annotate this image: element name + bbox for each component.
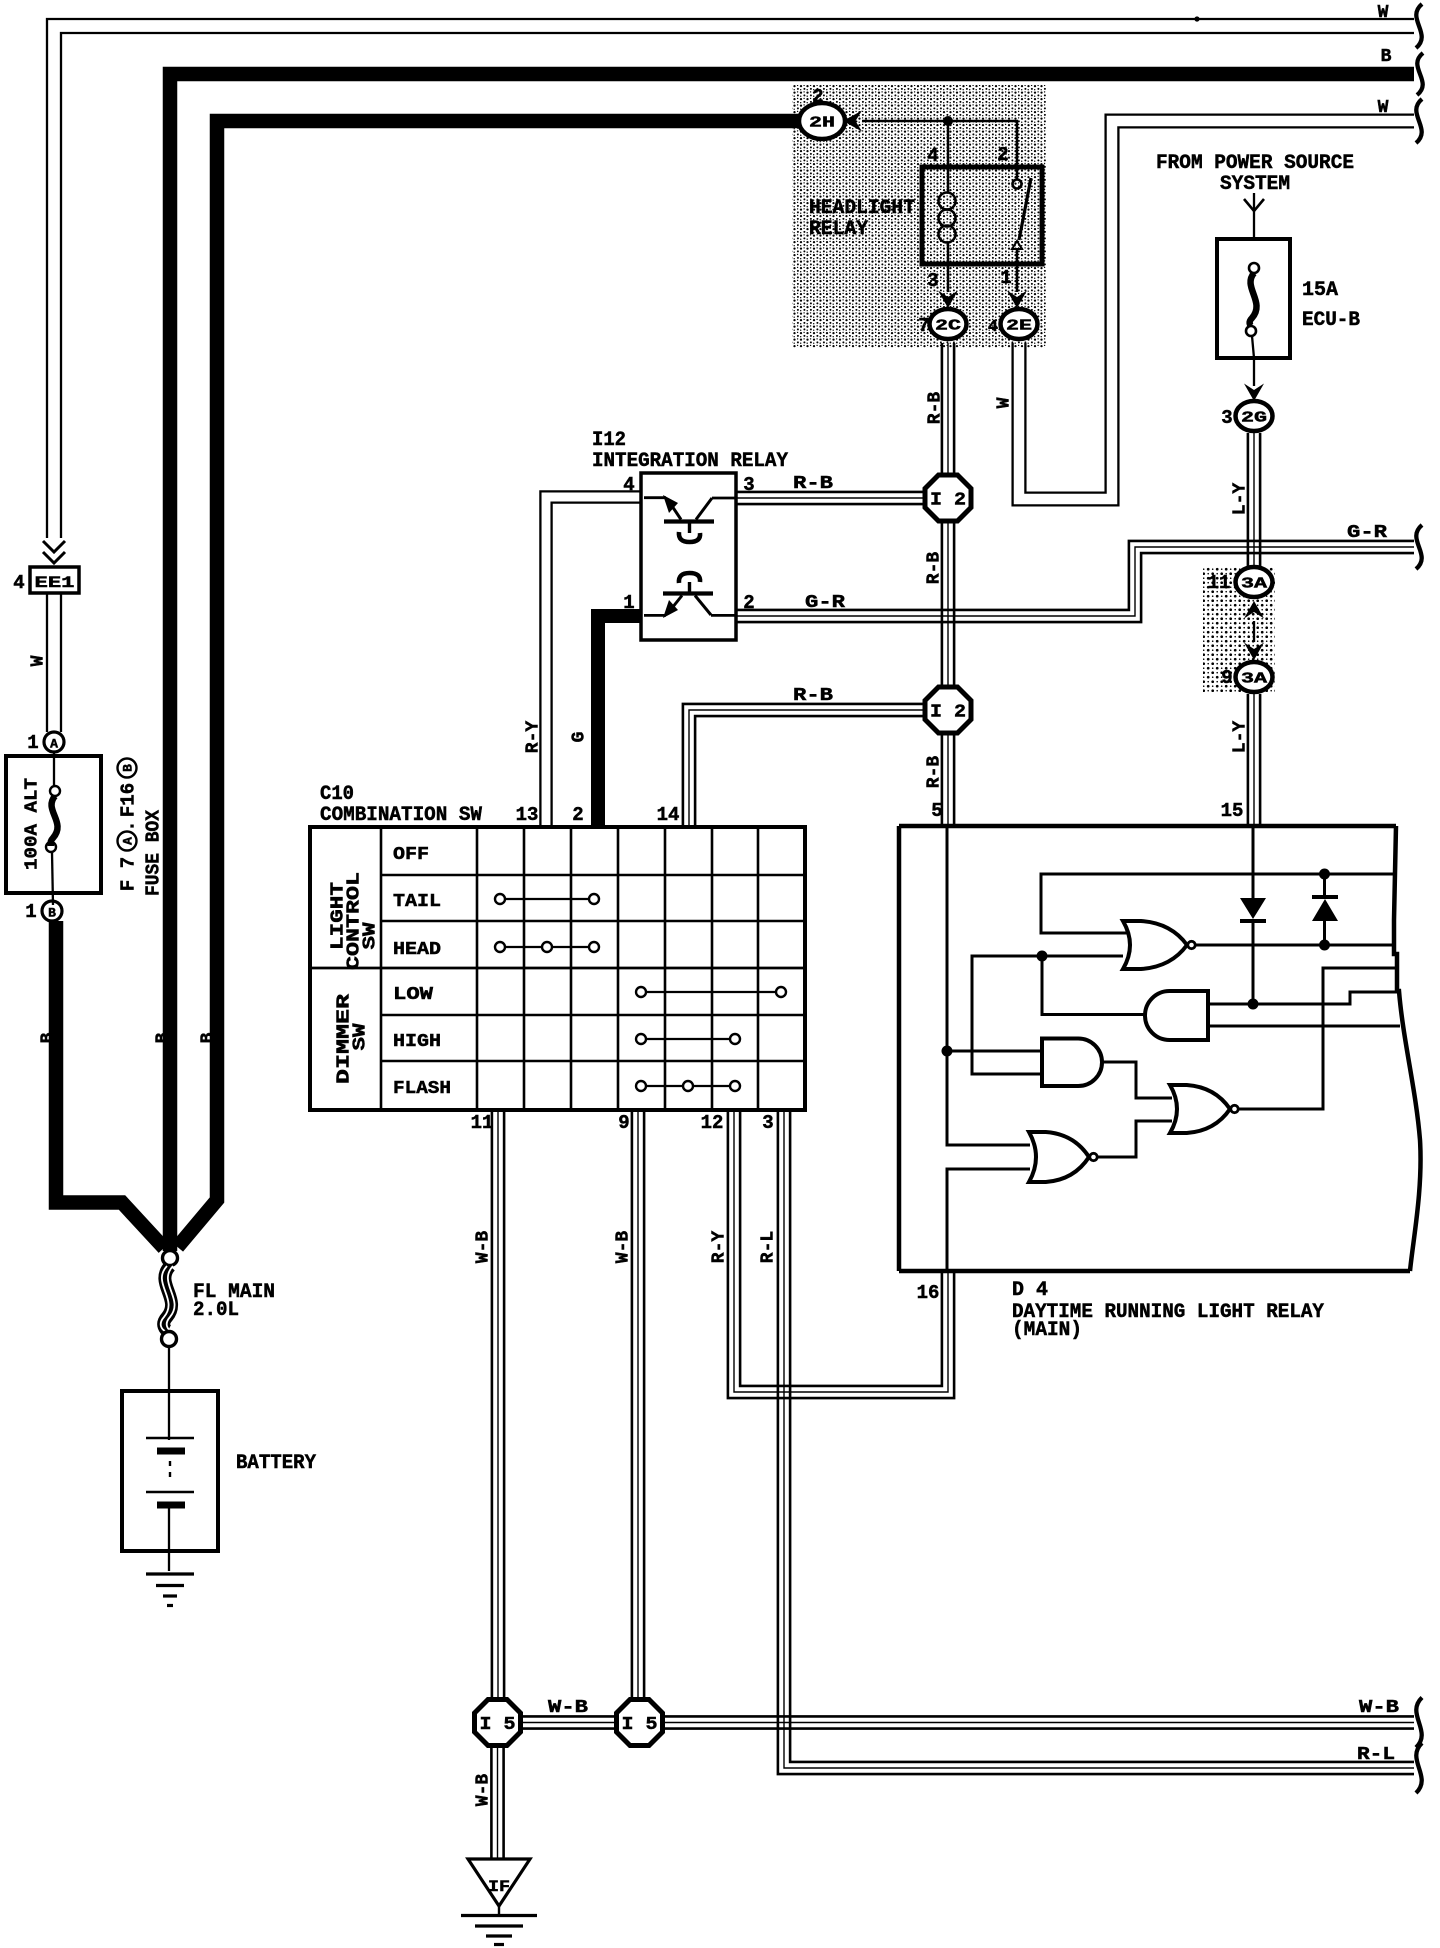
ground IF triangle [468, 1859, 530, 1906]
wave break W top right [1416, 4, 1422, 48]
svg-text:F 7: F 7 [118, 857, 140, 891]
AND1 input B wire [1208, 1025, 1400, 1028]
integration relay box I12 [641, 473, 736, 640]
label FL MAIN 2.0L [193, 1281, 275, 1322]
svg-text:G-R: G-R [1347, 523, 1387, 543]
svg-text:B: B [1381, 47, 1392, 67]
svg-text:1: 1 [1000, 267, 1011, 289]
svg-text:R-B: R-B [925, 392, 945, 425]
svg-text:1: 1 [623, 592, 634, 614]
NOR1 lower input wire [972, 956, 1123, 1074]
label 15A ECU-B [1302, 279, 1360, 332]
svg-text:I 5: I 5 [622, 1715, 658, 1735]
svg-text:R-Y: R-Y [709, 1231, 729, 1264]
svg-text:2G: 2G [1241, 410, 1267, 427]
junction circle at FL MAIN top [163, 1251, 178, 1266]
svg-text:2H: 2H [809, 115, 835, 132]
svg-text:B: B [153, 1032, 173, 1043]
I12 pin 2 label [743, 592, 754, 614]
terminal B circle [42, 901, 62, 921]
svg-text:9: 9 [1221, 667, 1232, 689]
label 5 at D4 pin 5 [931, 800, 942, 822]
label 2 above connector 2H [812, 86, 823, 108]
AND gate U3 [1042, 1039, 1102, 1087]
svg-text:B: B [38, 1032, 58, 1043]
svg-text:OFF: OFF [393, 845, 429, 865]
svg-text:4: 4 [927, 145, 938, 167]
wire from headlight relay to 2H [862, 121, 1017, 167]
NOR2 output wire [1237, 968, 1397, 1109]
svg-text:I 2: I 2 [930, 703, 966, 723]
relay pin 1 label [1000, 267, 1011, 289]
wire W-B from I5 to right edge [665, 1698, 1415, 1729]
relay switch contact [1012, 167, 1031, 264]
label 2 at C10 pin 2 [572, 804, 583, 826]
label 11 at connector 3A [1208, 572, 1231, 594]
label 4 at EE1 [13, 572, 24, 594]
svg-text:W: W [1378, 3, 1389, 23]
wire R-B from 2C to junction I2 [925, 343, 954, 474]
svg-text:B: B [48, 906, 56, 921]
svg-text:4: 4 [13, 572, 24, 594]
NOR gate U1 output wire [1195, 944, 1394, 947]
svg-text:HEADLIGHT: HEADLIGHT [809, 197, 915, 220]
AND1 output wire [1042, 956, 1146, 1015]
svg-text:15A: 15A [1302, 279, 1338, 302]
junction I 2 (first) [925, 475, 971, 521]
combination switch table C10 [310, 827, 805, 1110]
label C10 [320, 783, 354, 806]
fusible link FL MAIN 2.0L [161, 1266, 175, 1331]
junction dot pin5/AND2 [942, 1046, 953, 1057]
label I12 [592, 429, 626, 452]
svg-text:W: W [1378, 98, 1389, 118]
terminal A circle [44, 732, 64, 752]
wire B from ALT to battery junction [38, 921, 164, 1248]
svg-text:12: 12 [701, 1112, 724, 1134]
label F7A F16B fuse box [118, 759, 140, 892]
svg-text:SW: SW [360, 922, 380, 949]
label HEAD [393, 940, 441, 960]
svg-text:R-B: R-B [924, 552, 944, 585]
label W on 2E wire [994, 397, 1014, 408]
label FUSE BOX [143, 809, 165, 896]
svg-text:INTEGRATION RELAY: INTEGRATION RELAY [592, 450, 788, 473]
wire R-Y from I12 pin 4 to C10 pin 13 [523, 491, 641, 826]
svg-text:BATTERY: BATTERY [236, 1452, 316, 1475]
wire R-B between I2 junctions [924, 523, 954, 686]
svg-text:14: 14 [657, 804, 680, 826]
diode D1 (anode down) [1240, 898, 1266, 1004]
arrow down to 3A(9) [1244, 643, 1264, 661]
transistor Q2 in I12 [644, 573, 736, 618]
HIGH contacts [636, 1034, 740, 1044]
svg-text:HIGH: HIGH [393, 1032, 441, 1052]
NOR gate U4 (middle) [1170, 1085, 1238, 1133]
battery cells [146, 1438, 194, 1571]
label 7 at connector 2C [918, 315, 929, 337]
connector 2E [1001, 309, 1038, 339]
label 1 at terminal A [27, 732, 38, 754]
svg-text:B: B [198, 1032, 218, 1043]
wire W (battery to right edge, double line) [47, 3, 1414, 538]
label 3 at connector 2G [1221, 407, 1232, 429]
wave break W-B right [1416, 1698, 1422, 1748]
svg-text:W-B: W-B [548, 1698, 588, 1718]
label 1 at terminal B [25, 901, 36, 923]
svg-text:W-B: W-B [1359, 1698, 1399, 1718]
svg-text:2: 2 [997, 144, 1008, 166]
connector 3A (pin 11) [1236, 567, 1273, 597]
relay pin 4 label [927, 145, 938, 167]
wire to battery [168, 1347, 170, 1440]
junction dot diode2/NOR1 output [1319, 940, 1330, 951]
svg-text:3A: 3A [1241, 576, 1267, 593]
fuse 100A ALT element [46, 752, 60, 905]
chevron arrows above EE1 [43, 541, 65, 563]
NOR gate U1 (top) [1123, 921, 1195, 969]
svg-text:11: 11 [471, 1112, 494, 1134]
junction circle at FL MAIN bottom [162, 1332, 177, 1347]
wire W-B from C10 pin 9 to I5 [613, 1110, 644, 1697]
label DIMMER SW [334, 994, 370, 1084]
svg-text:R-B: R-B [793, 686, 833, 706]
relay pin 2 label [997, 144, 1008, 166]
svg-text:2: 2 [572, 804, 583, 826]
connector EE1 box [30, 567, 79, 593]
svg-text:FROM POWER SOURCE: FROM POWER SOURCE [1156, 152, 1354, 175]
svg-text:R-B: R-B [793, 474, 833, 494]
label FROM POWER SOURCE SYSTEM [1156, 152, 1354, 196]
svg-text:W-B: W-B [473, 1231, 493, 1264]
label 14 at C10 pin 14 [657, 804, 680, 826]
svg-text:G: G [569, 732, 589, 743]
relay pin1 lead and arrow [1007, 264, 1027, 308]
svg-text:IF: IF [488, 1878, 510, 1896]
label 15 at D4 pin 15 [1221, 800, 1244, 822]
connector 3A (pin 9) [1236, 662, 1273, 692]
svg-text:2: 2 [743, 592, 754, 614]
wave break B top right [1417, 53, 1423, 95]
svg-text:ECU-B: ECU-B [1302, 309, 1360, 332]
NOR gate U5 (bottom) [1029, 1132, 1097, 1182]
connector 2G [1236, 401, 1273, 431]
svg-text:SYSTEM: SYSTEM [1220, 173, 1290, 196]
label 9 at C10 pin 9 [618, 1112, 629, 1134]
svg-text:100A ALT: 100A ALT [22, 778, 42, 870]
wire W from connector 2E to right edge [1013, 98, 1414, 505]
wire from fuse to 2G [1244, 358, 1264, 401]
junction dot diode1/AND1 input [1248, 999, 1259, 1010]
arrow up to 3A [1244, 601, 1264, 642]
junction I 2 (second) [925, 687, 971, 733]
svg-text:9: 9 [618, 1112, 629, 1134]
battery ground [146, 1574, 194, 1606]
relay pin 3 label [927, 270, 938, 292]
svg-text:11: 11 [1208, 572, 1231, 594]
wire L-Y from 2G to 3A [1230, 433, 1260, 566]
wave break W right (y121) [1416, 99, 1422, 143]
label 3 at C10 pin 3 [762, 1112, 773, 1134]
daytime running light relay box D4 [899, 826, 1421, 1271]
diode D2 (anode up) [1312, 874, 1338, 945]
svg-text:3A: 3A [1241, 671, 1267, 688]
wire L-Y from 3A to D4 pin 15 [1230, 694, 1260, 825]
wave break R-L right [1416, 1743, 1422, 1793]
I12 pin 3 label [743, 474, 754, 496]
label 11 at C10 pin 11 [471, 1112, 494, 1134]
AND1 input A wire [1208, 992, 1398, 1004]
label BATTERY [236, 1452, 316, 1475]
svg-text:16: 16 [917, 1282, 940, 1304]
LOW contacts [636, 987, 786, 997]
svg-text:R-L: R-L [1357, 1745, 1395, 1765]
svg-text:R-Y: R-Y [523, 721, 543, 754]
svg-text:C10: C10 [320, 783, 354, 806]
svg-text:4: 4 [988, 318, 998, 337]
svg-text:2E: 2E [1006, 318, 1032, 335]
wave break G-R right [1416, 525, 1422, 569]
svg-text:COMBINATION SW: COMBINATION SW [320, 804, 482, 827]
I12 pin 1 label [623, 592, 634, 614]
svg-text:W: W [28, 655, 48, 666]
label B on right battery feed [198, 1032, 218, 1043]
svg-text:I12: I12 [592, 429, 626, 452]
label HEADLIGHT RELAY [809, 197, 915, 241]
wire R-B from I2 to D4 pin 5 [924, 735, 954, 825]
svg-text:1: 1 [27, 732, 38, 754]
NOR3 output wire [1095, 1121, 1172, 1157]
svg-text:RELAY: RELAY [809, 218, 868, 241]
svg-text:A: A [121, 837, 136, 845]
connector 2C [930, 309, 967, 339]
svg-text:D 4: D 4 [1012, 1279, 1048, 1302]
junction dot at relay feed [943, 116, 953, 126]
svg-text:CONTROL: CONTROL [344, 872, 364, 970]
headlight relay box [922, 167, 1042, 264]
svg-text:W-B: W-B [613, 1231, 633, 1264]
label OFF [393, 845, 429, 865]
label 12 at C10 pin 12 [701, 1112, 724, 1134]
wire R-L from C10 pin 3 to right edge [758, 1110, 1414, 1774]
label (MAIN) [1012, 1319, 1082, 1342]
label COMBINATION SW [320, 804, 482, 827]
ground symbol below IF [461, 1906, 537, 1945]
fuse 15A ECU-B box [1217, 239, 1290, 358]
svg-text:3: 3 [743, 474, 754, 496]
svg-text:1: 1 [25, 901, 36, 923]
AND gate U2 (mirrored) [1145, 991, 1208, 1040]
svg-text:3: 3 [1221, 407, 1232, 429]
label B on middle battery feed [153, 1032, 173, 1043]
arrow into 2H [843, 111, 862, 132]
transistor Q1 in I12 [644, 495, 736, 542]
D4 NOR3 bottom input and pin16 wire [947, 1169, 1030, 1271]
svg-text:2C: 2C [935, 318, 961, 335]
svg-text:.: . [118, 820, 140, 831]
wire W-B from C10 pin 11 to I5 [473, 1110, 504, 1697]
label 100A ALT [22, 778, 42, 870]
fuse 15A ECU-B element [1246, 263, 1259, 358]
wire B (thick) from right edge down to battery junction [170, 47, 1414, 1251]
svg-text:A: A [50, 737, 58, 752]
svg-text:TAIL: TAIL [393, 892, 441, 912]
connector 3A shaded area [1203, 566, 1275, 692]
arrow from power source [1244, 193, 1264, 239]
label TAIL [393, 892, 441, 912]
TAIL contacts [495, 894, 599, 904]
svg-text:L-Y: L-Y [1230, 721, 1250, 754]
svg-text:F16: F16 [118, 783, 140, 817]
label HIGH [393, 1032, 441, 1052]
svg-text:L-Y: L-Y [1230, 483, 1250, 516]
svg-text:R-L: R-L [758, 1231, 778, 1263]
label 13 at C10 pin 13 [516, 804, 539, 826]
svg-text:I 5: I 5 [480, 1715, 516, 1735]
junction dot NOR1 input/AND1 output [1037, 951, 1048, 962]
svg-text:EE1: EE1 [35, 574, 75, 592]
svg-text:SW: SW [350, 1023, 370, 1050]
wire R-Y from C10 pin 12 to D4 pin 16 [709, 1110, 954, 1398]
AND2 output wire [1100, 1062, 1172, 1098]
svg-text:I 2: I 2 [930, 491, 966, 511]
label DAYTIME RUNNING LIGHT RELAY [1012, 1301, 1324, 1324]
label 16 at D4 pin 16 [917, 1282, 940, 1304]
svg-text:4: 4 [623, 474, 634, 496]
D4 pin15 internal wire [1252, 826, 1255, 898]
svg-text:LOW: LOW [393, 985, 433, 1005]
svg-text:W-B: W-B [473, 1774, 493, 1807]
wire W-B between I5 junctions [523, 1698, 615, 1729]
svg-text:2.0L: 2.0L [193, 1299, 239, 1322]
headlight relay shaded area [792, 85, 1046, 348]
svg-text:G-R: G-R [805, 593, 845, 613]
svg-text:B: B [121, 764, 136, 772]
D4 top feedback wire [1041, 874, 1393, 933]
label LOW [393, 985, 433, 1005]
svg-text:(MAIN): (MAIN) [1012, 1319, 1082, 1342]
wire G-R from I12 pin 2 to right edge [736, 523, 1414, 622]
svg-text:3: 3 [762, 1112, 773, 1134]
label D 4 [1012, 1279, 1048, 1302]
scan speck on W wire [1194, 16, 1199, 21]
I12 pin 4 label [623, 474, 634, 496]
svg-text:3: 3 [927, 270, 938, 292]
D4 pin5 internal wire [947, 826, 1030, 1145]
svg-text:FLASH: FLASH [393, 1079, 451, 1099]
svg-text:15: 15 [1221, 800, 1244, 822]
HEAD contacts [495, 942, 599, 952]
D4 wire to AND2 input A [947, 1050, 1043, 1053]
FLASH contacts [636, 1081, 740, 1091]
svg-text:HEAD: HEAD [393, 940, 441, 960]
junction I 5 (first) [475, 1700, 521, 1746]
junction I 5 (second) [617, 1700, 663, 1746]
wire G (thick) from I12 pin 1 to C10 pin 2 [569, 616, 641, 826]
wire R-B from I12 pin 3 to I2 junction [736, 474, 923, 504]
fuse 100A ALT box [6, 756, 101, 893]
wire R-B from I2 junction to C10 pin 14 [683, 686, 923, 826]
junction dot top wire/diode2 [1319, 869, 1330, 880]
connector 2H [799, 103, 845, 139]
label 4 at connector 2E [988, 318, 998, 337]
battery box [122, 1391, 218, 1551]
svg-text:5: 5 [931, 800, 942, 822]
label FLASH [393, 1079, 451, 1099]
svg-text:R-B: R-B [924, 756, 944, 789]
wire B (thick) from connector 2H down to battery junction [178, 121, 801, 1247]
label INTEGRATION RELAY [592, 450, 788, 473]
svg-text:13: 13 [516, 804, 539, 826]
label LIGHT CONTROL SW [328, 872, 380, 970]
svg-text:FUSE BOX: FUSE BOX [143, 809, 165, 896]
wire W from EE1 to ALT fuse [28, 593, 61, 732]
relay coil [939, 167, 956, 264]
wire W-B from I5 to ground IF [473, 1748, 503, 1859]
svg-text:W: W [994, 397, 1014, 408]
relay pin3 lead and arrow [938, 264, 958, 308]
label 9 at connector 3A [1221, 667, 1232, 689]
